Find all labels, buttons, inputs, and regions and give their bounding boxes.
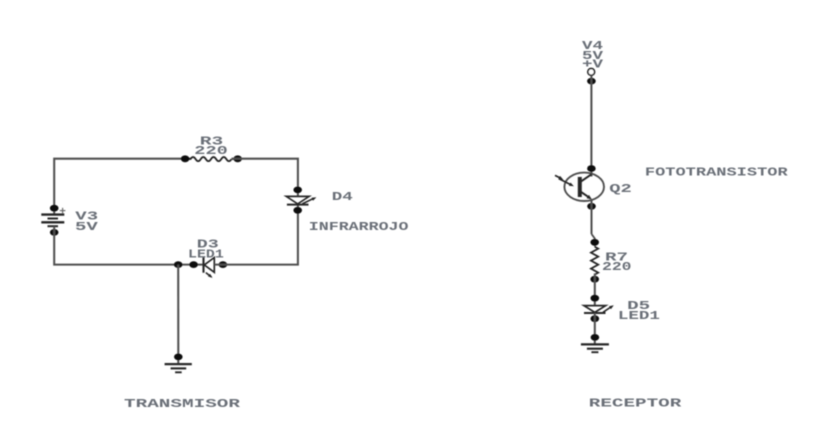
wire R7 to D5 — [594, 273, 596, 305]
resistor R3 — [191, 157, 232, 161]
supply terminal circle — [588, 69, 595, 76]
diode D5 (LED) — [584, 306, 606, 313]
wire ground stub — [177, 265, 179, 364]
svg-text:LED1: LED1 — [618, 310, 660, 323]
wire supply to Q2 — [590, 75, 592, 176]
svg-text:FOTOTRANSISTOR: FOTOTRANSISTOR — [645, 166, 788, 179]
wire Q2 to R7 with jog — [590, 199, 592, 234]
svg-text:INFRARROJO: INFRARROJO — [309, 221, 409, 234]
wire D5 to ground — [594, 313, 596, 344]
wire battery to bottom + bottom-left segment — [54, 226, 203, 264]
ground dot (left) — [174, 354, 183, 361]
D3 emission arrow — [206, 273, 212, 277]
supply node dot — [587, 78, 596, 85]
svg-text:TRANSMISOR: TRANSMISOR — [124, 397, 241, 411]
wire bottom-right segment + right vertical lower — [214, 205, 298, 265]
wire top-right segment + right vertical upper — [232, 159, 298, 197]
svg-text:Q2: Q2 — [609, 183, 632, 196]
Q2 base bar — [578, 177, 582, 197]
svg-text:RECEPTOR: RECEPTOR — [589, 397, 682, 411]
diode D4 (LED infrarrojo) — [286, 196, 309, 204]
svg-text:5V: 5V — [75, 221, 98, 234]
node dots on R3 — [181, 155, 190, 162]
svg-text:D4: D4 — [332, 191, 353, 204]
D5 bottom node dot — [591, 315, 600, 322]
resistor R7 — [591, 247, 598, 275]
Q2 collector — [581, 174, 592, 182]
svg-text:LED1: LED1 — [188, 249, 224, 262]
phototransistor Q2 circle — [564, 173, 604, 201]
D3 node dots — [174, 261, 183, 268]
Q2 bottom node dot — [587, 203, 596, 210]
wire left vertical + top-left segment — [54, 159, 191, 215]
Q2 emitter with arrow — [581, 192, 590, 198]
ground dot (right) — [591, 334, 600, 341]
photo arrow 2 — [559, 179, 572, 185]
Q2 top node dot — [587, 165, 596, 172]
diode D3 triangle — [204, 258, 214, 273]
svg-text:220: 220 — [194, 145, 228, 158]
battery plus sign — [60, 210, 66, 212]
battery terminal dots — [50, 205, 59, 212]
diode D3 cathode bar — [202, 257, 204, 272]
svg-text:220: 220 — [602, 261, 632, 274]
D5 top node dot — [591, 295, 600, 302]
R7 top node dot — [590, 239, 599, 246]
ground symbol (right) — [581, 343, 609, 345]
D4 emission arrow — [302, 198, 314, 204]
D4 node dots — [293, 187, 302, 194]
photo arrow 1 — [555, 175, 561, 178]
D5 emission arrow — [603, 307, 612, 313]
ground symbol (left) — [165, 363, 192, 365]
battery V3 — [41, 213, 64, 215]
R7 bottom node dot — [590, 276, 599, 283]
